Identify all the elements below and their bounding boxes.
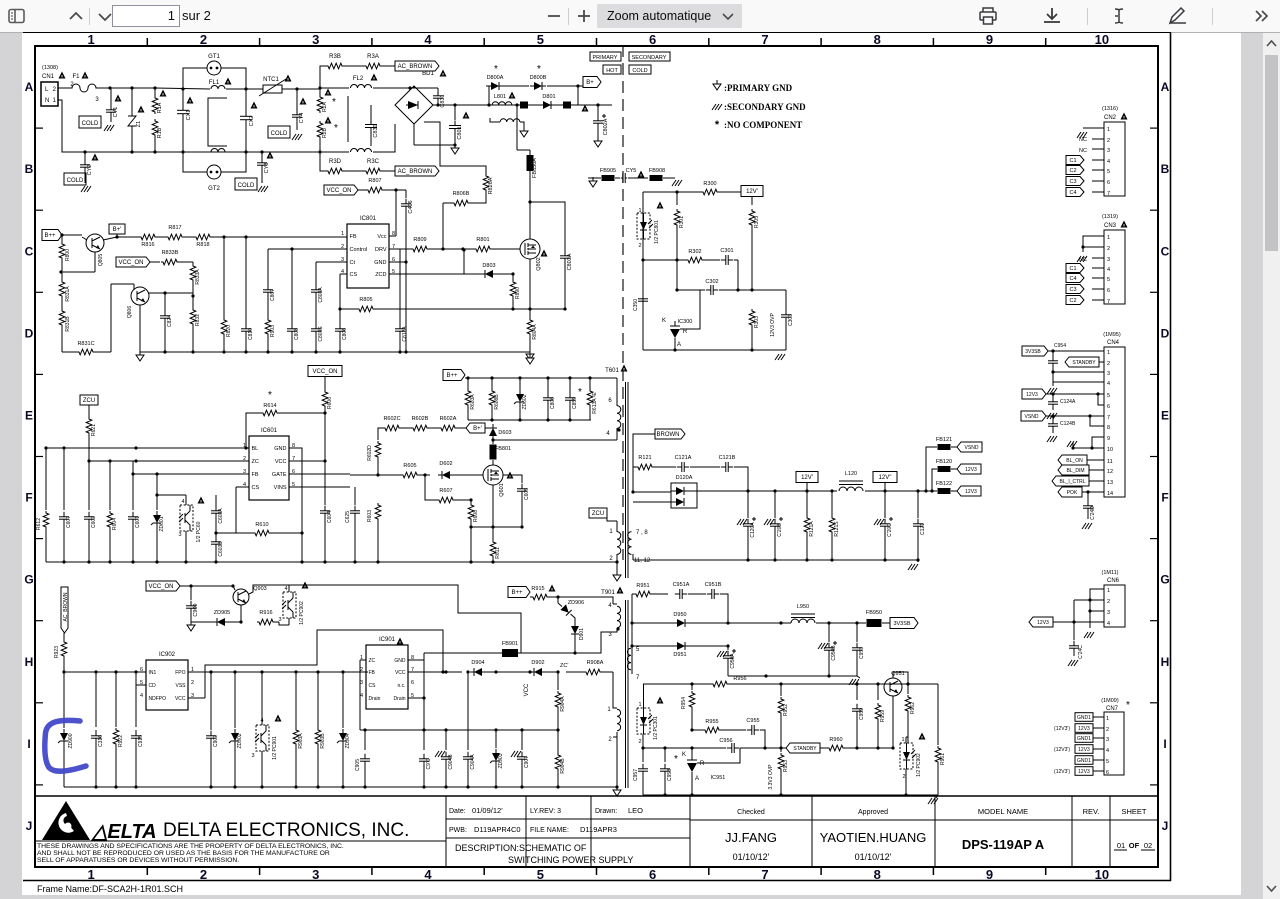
net flag C3 (CN2) <box>1066 177 1084 186</box>
svg-text:R952: R952 <box>783 704 789 716</box>
svg-text:ZCU: ZCU <box>592 511 604 517</box>
svg-text:(12V3'): (12V3') <box>1054 747 1070 753</box>
svg-text:R831A: R831A <box>65 286 71 302</box>
svg-text:CY2: CY2 <box>87 165 93 176</box>
resistor R956 <box>711 681 729 687</box>
wire N line <box>58 100 85 152</box>
wire FB drop <box>132 461 134 474</box>
disclaimer separator <box>35 840 446 842</box>
resistor R922 vertical <box>113 728 119 746</box>
resistor R305 vertical <box>751 197 753 205</box>
svg-text:B++: B++ <box>44 233 56 239</box>
svg-text:NTC1: NTC1 <box>263 77 279 83</box>
svg-text:VCC: VCC <box>395 670 406 676</box>
resistor R604 vertical <box>109 461 111 510</box>
text select tool icon <box>1115 9 1123 23</box>
svg-text:4: 4 <box>1106 748 1109 754</box>
svg-text:ZD902: ZD902 <box>237 733 243 748</box>
svg-text:ZCD: ZCD <box>375 272 386 278</box>
capacitor C957 <box>642 748 644 762</box>
wire left fb rail down <box>643 684 645 708</box>
svg-text:C301: C301 <box>720 248 733 254</box>
T601 secondary winding <box>628 532 632 555</box>
ferrite bead FB908 <box>628 177 648 179</box>
svg-text:*: * <box>537 64 541 75</box>
svg-text:C121A: C121A <box>675 455 692 461</box>
svg-text::PRIMARY GND: :PRIMARY GND <box>724 83 793 93</box>
svg-text:6: 6 <box>1107 180 1110 186</box>
svg-text:NC: NC <box>1079 148 1087 154</box>
svg-text:n.c.: n.c. <box>397 683 405 689</box>
svg-text:R804A: R804A <box>532 324 538 340</box>
svg-text:C'24D: C'24D <box>1090 506 1096 520</box>
resistor R302 <box>686 257 704 263</box>
svg-text:D602: D602 <box>439 461 452 467</box>
wire bottom rail E-F <box>46 561 325 563</box>
primary ground CY5 left <box>592 177 594 181</box>
svg-text:R612: R612 <box>36 518 42 530</box>
wire ZCD pin <box>389 273 464 275</box>
resistor R608 vertical <box>468 503 474 521</box>
resistor R831A vertical <box>59 280 65 298</box>
transistor Q806 <box>131 287 149 305</box>
capacitor C909 <box>190 586 192 600</box>
wire R807 to Vcc <box>384 189 396 191</box>
zone tick top <box>146 38 148 46</box>
resistor R610 <box>253 530 271 536</box>
sidebar toggle icon <box>9 10 24 23</box>
svg-text:7: 7 <box>761 32 768 47</box>
svg-text:ZD906: ZD906 <box>568 600 585 606</box>
svg-text:1/2 PC902: 1/2 PC902 <box>299 601 305 625</box>
wire vcc_on stby <box>180 585 233 587</box>
wire L line <box>58 87 66 89</box>
capacitor C302 <box>706 289 711 291</box>
secondary ground CY5 right <box>672 180 676 186</box>
svg-text:SHEET: SHEET <box>1121 807 1146 816</box>
svg-text:C907: C907 <box>524 756 530 768</box>
scrollbar up arrow <box>1267 41 1276 46</box>
svg-text:B: B <box>25 162 34 176</box>
svg-text:9: 9 <box>986 867 993 882</box>
svg-text:C957: C957 <box>633 769 639 781</box>
svg-text:NDFPO: NDFPO <box>149 696 167 702</box>
zone tick top <box>932 38 934 46</box>
svg-text:R801: R801 <box>476 237 489 243</box>
primary ground C801 <box>413 124 415 145</box>
svg-text:4: 4 <box>424 32 432 47</box>
svg-text:C'20C: C'20C <box>887 523 893 537</box>
svg-text:1: 1 <box>638 702 641 708</box>
schematic outer border top <box>23 32 1171 34</box>
resistor R953 vertical <box>780 748 782 752</box>
svg-text:C859: C859 <box>572 397 578 409</box>
zone tick bottom <box>259 867 261 875</box>
svg-text:2: 2 <box>1107 138 1110 144</box>
diode D602 <box>419 474 430 476</box>
svg-text:R916: R916 <box>259 610 272 616</box>
zone tick top <box>259 38 261 46</box>
capacitor C830 branch <box>347 96 349 142</box>
svg-text:F: F <box>25 491 32 505</box>
wire mid rail stby <box>360 729 558 731</box>
primary ground Q802 source <box>529 350 531 354</box>
capacitor C604 <box>324 461 326 505</box>
wire PC902 top <box>907 713 909 743</box>
schematic outer border right <box>1170 33 1172 882</box>
capacitor C625 <box>354 487 356 505</box>
diode D904 <box>474 668 482 676</box>
svg-text:8: 8 <box>874 867 881 882</box>
svg-text:E: E <box>1161 408 1169 422</box>
svg-text:C905: C905 <box>355 759 361 771</box>
net label GND1 (CN7 pin) <box>1075 713 1093 722</box>
T601 aux winding <box>617 532 621 555</box>
svg-text:C909: C909 <box>193 603 199 616</box>
svg-text:CN4: CN4 <box>1107 340 1120 346</box>
wire VCC pin right <box>289 460 325 462</box>
svg-text:D: D <box>1161 326 1170 340</box>
resistor R820 vertical <box>223 237 225 318</box>
svg-text:R903A: R903A <box>298 733 304 749</box>
svg-text:CX1: CX1 <box>186 110 192 121</box>
varistor Z1 <box>131 88 133 116</box>
svg-text:13: 13 <box>1107 480 1113 486</box>
svg-text:IC902: IC902 <box>159 652 176 658</box>
svg-text:G: G <box>1160 573 1169 587</box>
svg-text:C605: C605 <box>524 488 530 500</box>
svg-text:A: A <box>695 776 699 782</box>
net flag 3V3SB out <box>890 618 918 629</box>
wire Q805 base down <box>94 252 96 272</box>
svg-text:4: 4 <box>140 693 143 699</box>
svg-text:SECONDARY: SECONDARY <box>632 55 667 61</box>
svg-text:C808: C808 <box>294 328 300 340</box>
svg-text:VCC_ON: VCC_ON <box>118 260 143 266</box>
capacitor C904B <box>445 730 447 750</box>
svg-text:ZC: ZC <box>369 658 376 664</box>
wire GND pin to C406 <box>389 261 406 263</box>
svg-text:R611: R611 <box>495 547 501 559</box>
capacitor C801 <box>454 105 456 120</box>
svg-text:Q805: Q805 <box>98 254 104 266</box>
IC U IC902 <box>146 660 188 710</box>
svg-text:1: 1 <box>1107 235 1110 241</box>
svg-text:3: 3 <box>95 97 99 103</box>
zone tick left <box>35 291 43 293</box>
capacitor C605 <box>503 475 522 483</box>
inductor FL2 <box>351 85 372 88</box>
svg-text:4: 4 <box>1107 381 1110 387</box>
svg-text:THESE DRAWINGS AND SPECIFICATI: THESE DRAWINGS AND SPECIFICATIONS ARE TH… <box>37 843 344 850</box>
secondary ground CN4 pin4 <box>1047 388 1051 394</box>
ferrite bead FB950 <box>867 619 882 627</box>
svg-text:D119APR3: D119APR3 <box>580 825 617 834</box>
svg-text:FL2: FL2 <box>353 76 364 82</box>
resistor R606 vertical <box>324 377 326 390</box>
svg-text:C956: C956 <box>719 738 732 744</box>
svg-text:4: 4 <box>608 603 612 609</box>
svg-text:R800: R800 <box>65 249 71 261</box>
capacitor C803A right of Q802 <box>530 202 565 252</box>
svg-text:R602B: R602B <box>412 416 429 422</box>
net flag 3V3SB (CN4) <box>1022 346 1048 356</box>
diode D801 with pads <box>520 102 528 109</box>
svg-text:1: 1 <box>341 231 344 237</box>
T901 primary winding <box>617 606 621 628</box>
svg-text:GND1: GND1 <box>1077 736 1091 742</box>
svg-text:R954: R954 <box>681 697 687 709</box>
svg-text:VCC: VCC <box>524 683 530 696</box>
wire GND IC901 right <box>408 659 424 661</box>
label COLD <box>629 65 651 74</box>
resistor R301 vertical <box>676 192 678 205</box>
zener ZD900 (circled) <box>63 672 65 728</box>
svg-text:C602: C602 <box>91 516 97 528</box>
svg-text:C904B: C904B <box>448 754 454 770</box>
svg-text:C803S: C803S <box>318 326 324 342</box>
transistor Q601 mosfet <box>483 465 503 485</box>
svg-text:IC901: IC901 <box>379 637 396 643</box>
svg-text:R962: R962 <box>910 702 916 714</box>
wire IN1 rail <box>64 671 146 673</box>
svg-text:D800B: D800B <box>530 75 547 81</box>
svg-text:R890: R890 <box>515 287 521 299</box>
wire 3v3 gnd join <box>728 675 857 677</box>
svg-text:12V3: 12V3 <box>1078 726 1090 732</box>
svg-text:D801: D801 <box>542 94 555 100</box>
svg-text:Q802: Q802 <box>536 257 542 270</box>
wire D803 loop <box>463 250 465 274</box>
svg-text:VCC_ON: VCC_ON <box>148 584 173 590</box>
svg-text:3: 3 <box>1107 610 1110 616</box>
svg-text::NO COMPONENT: :NO COMPONENT <box>724 120 802 130</box>
svg-text:BL_I_CTRL: BL_I_CTRL <box>1059 479 1085 485</box>
net flag C2 (CN3) <box>1066 296 1084 305</box>
svg-text:C350: C350 <box>633 299 639 311</box>
svg-text:2: 2 <box>200 867 207 882</box>
svg-text:R953: R953 <box>783 760 789 772</box>
resistor R608B vertical <box>489 389 495 407</box>
net flag BL_DIM (CN4) <box>1058 465 1089 475</box>
wire ZC pin1 down <box>360 659 366 661</box>
resistor R605 main <box>401 472 419 478</box>
schematic outer border bottom <box>23 880 1171 882</box>
overflow chevrons <box>1256 11 1267 21</box>
svg-text:VCC_ON: VCC_ON <box>312 369 337 375</box>
zone tick right <box>1150 209 1158 211</box>
svg-text:H: H <box>1161 655 1170 669</box>
net flag STANDBY (3v3) <box>786 743 820 753</box>
svg-text:FB850A: FB850A <box>532 158 538 178</box>
net flag AC_BROWN (top) <box>382 65 395 67</box>
resistor R831C <box>77 349 95 355</box>
capacitor C350 <box>642 294 644 299</box>
svg-text:1/2 PC901: 1/2 PC901 <box>272 736 278 760</box>
svg-text:D120A: D120A <box>676 475 693 481</box>
svg-text:C4: C4 <box>1069 190 1076 196</box>
svg-text:*: * <box>715 119 720 131</box>
svg-text:ZC': ZC' <box>560 663 568 669</box>
optocoupler PC901 tr (stby) <box>256 725 269 751</box>
svg-text:C831: C831 <box>440 94 446 107</box>
capacitor C121 <box>917 491 919 518</box>
wire Vcc pin <box>389 235 396 237</box>
capacitor C958 star <box>664 748 666 762</box>
T901 aux winding <box>617 709 621 731</box>
svg-text:1/2 PC301: 1/2 PC301 <box>653 716 659 740</box>
svg-text::SECONDARY GND: :SECONDARY GND <box>724 102 806 112</box>
primary ground C802A <box>597 137 599 141</box>
svg-text:C801: C801 <box>457 126 463 139</box>
svg-text:Checked: Checked <box>737 809 765 816</box>
svg-text:(1M09): (1M09) <box>1101 698 1119 704</box>
zone tick top <box>1045 38 1047 46</box>
svg-text:6: 6 <box>1107 288 1110 294</box>
wire L950 right <box>816 622 866 624</box>
wire Q951 collector <box>892 672 894 678</box>
capacitor C831 <box>437 91 439 96</box>
svg-text:R826A: R826A <box>488 177 494 194</box>
svg-text:2: 2 <box>638 243 641 249</box>
zone tick bottom <box>820 867 822 875</box>
diode D901 <box>571 626 579 634</box>
net flag BROWN <box>633 434 655 440</box>
svg-text:B+': B+' <box>113 227 122 233</box>
svg-text:FPO: FPO <box>175 670 185 676</box>
net flag 12V3 (CN6) <box>1029 617 1053 627</box>
svg-text:C902: C902 <box>213 735 219 747</box>
svg-text:OF: OF <box>1129 841 1140 850</box>
svg-text:FB801: FB801 <box>495 446 511 452</box>
svg-text:C3: C3 <box>1069 287 1076 293</box>
svg-text:R816: R816 <box>141 242 154 248</box>
svg-text:B+: B+ <box>586 80 594 86</box>
wire Control rail <box>268 248 347 250</box>
svg-text:*: * <box>332 97 336 108</box>
zone tick right <box>1150 456 1158 458</box>
svg-text:Vcc: Vcc <box>377 234 386 240</box>
svg-text:R1B: R1B <box>157 127 163 138</box>
primary ground stby <box>616 737 618 787</box>
svg-text:BD1: BD1 <box>422 71 434 77</box>
capacitor C956 <box>727 747 732 749</box>
svg-text:01/09/12': 01/09/12' <box>472 806 503 815</box>
svg-text:GATE: GATE <box>272 472 287 478</box>
svg-text:01/10/12': 01/10/12' <box>855 852 892 862</box>
svg-text:MODEL NAME: MODEL NAME <box>978 807 1028 816</box>
net flag C4 (CN3) <box>1066 274 1084 283</box>
svg-text:C303: C303 <box>788 314 794 326</box>
resistor R602D vertical <box>375 441 381 459</box>
draw tool icon <box>1170 8 1186 23</box>
svg-text:H: H <box>25 655 34 669</box>
svg-text:JJ.FANG: JJ.FANG <box>725 830 777 845</box>
svg-text:YAOTIEN.HUANG: YAOTIEN.HUANG <box>820 830 927 845</box>
svg-text:R807: R807 <box>368 178 381 184</box>
svg-text:01: 01 <box>1117 841 1125 850</box>
svg-text:C: C <box>25 244 34 258</box>
svg-text:(1M95): (1M95) <box>1103 332 1121 338</box>
resistor R1A <box>154 88 156 96</box>
svg-text:C950B: C950B <box>831 645 837 661</box>
ferrite bead FB901 <box>502 649 518 657</box>
wire DRV to gate <box>429 248 463 250</box>
svg-text:(1319): (1319) <box>1102 214 1118 220</box>
svg-text:T601: T601 <box>605 368 619 374</box>
browser pdf viewer toolbar <box>0 0 1280 33</box>
svg-text:I: I <box>1163 737 1166 751</box>
svg-text:01/10/12': 01/10/12' <box>733 852 770 862</box>
svg-text:12V': 12V' <box>801 475 813 481</box>
T601 primary winding top <box>617 406 621 429</box>
svg-text:3: 3 <box>312 32 319 47</box>
svg-text:SELL OF APPARATUSES OR DEVICES: SELL OF APPARATUSES OR DEVICES WITHOUT P… <box>37 857 239 864</box>
label PRIMARY <box>590 52 621 61</box>
svg-text:2: 2 <box>191 680 194 686</box>
secondary ground CN2 pin1 <box>1083 127 1092 129</box>
svg-text:D901: D901 <box>579 628 585 640</box>
svg-text:IC300: IC300 <box>678 319 693 325</box>
svg-text:PRIMARY: PRIMARY <box>593 55 618 61</box>
T901 sec winding <box>627 648 631 670</box>
capacitor CY3 <box>261 152 263 158</box>
wire R806B up to R826A <box>442 203 444 249</box>
zone tick top <box>820 38 822 46</box>
primary ground Q806 <box>139 351 141 355</box>
print icon <box>980 8 996 24</box>
wire FPO right <box>188 671 368 673</box>
title table row lines <box>446 818 690 820</box>
svg-text:R3D: R3D <box>329 159 342 165</box>
resistor R817 <box>166 234 184 240</box>
net flag VSND (CN4 pin7) <box>1021 411 1046 421</box>
wire Q601 drain <box>492 464 494 466</box>
net flag VSND (12V) <box>957 442 982 452</box>
scrollbar track <box>1263 33 1280 899</box>
svg-text:R613A -E: R613A -E <box>592 392 598 414</box>
svg-text:FB122: FB122 <box>936 481 952 487</box>
svg-text:C951A: C951A <box>673 582 690 588</box>
zone tick bottom <box>371 867 373 875</box>
svg-text:FB: FB <box>350 234 357 240</box>
svg-text:FB905: FB905 <box>600 168 616 174</box>
svg-text:BROWN: BROWN <box>657 432 680 438</box>
net label 12V3 (CN7 pin) <box>1075 724 1093 733</box>
svg-text:VSND: VSND <box>965 445 979 451</box>
zone tick bottom <box>146 867 148 875</box>
resistor R801 <box>474 246 492 252</box>
wire vcc_on to R833B <box>150 261 160 263</box>
wire lower AC to FL2b <box>320 151 349 153</box>
svg-text:R923: R923 <box>54 646 60 658</box>
svg-text:R302: R302 <box>688 249 701 255</box>
capacitor CY2 <box>84 152 86 161</box>
resistor R833B <box>161 259 179 265</box>
svg-text:PWB:: PWB: <box>449 827 467 834</box>
svg-text:GND1: GND1 <box>1077 715 1091 721</box>
svg-text:C2: C2 <box>1069 168 1076 174</box>
resistor R602B <box>411 425 429 431</box>
diode D603 <box>489 428 497 436</box>
resistor R3B <box>326 63 344 69</box>
resistor R303 vertical <box>749 309 755 327</box>
svg-text:C824: C824 <box>167 315 173 327</box>
ferrite bead FB905 <box>602 175 615 181</box>
secondary ground fb <box>775 354 779 360</box>
svg-text:GT2: GT2 <box>208 186 220 192</box>
resistor R908A <box>584 669 602 675</box>
